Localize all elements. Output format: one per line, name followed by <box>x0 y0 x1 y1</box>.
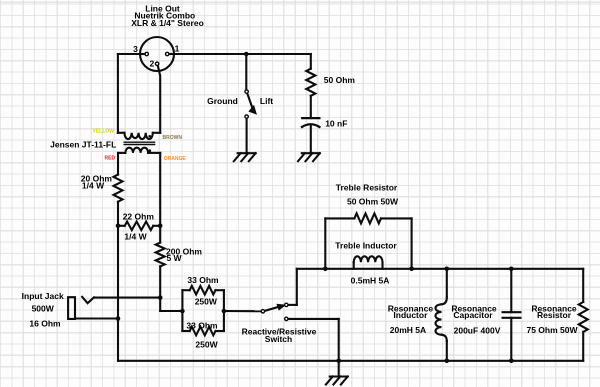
svg-text:Switch: Switch <box>265 334 292 344</box>
svg-text:250W: 250W <box>195 340 218 350</box>
svg-text:Treble Resistor: Treble Resistor <box>336 182 398 192</box>
svg-text:33 Ohm: 33 Ohm <box>187 275 219 285</box>
svg-text:2: 2 <box>150 58 155 68</box>
svg-text:Input Jack: Input Jack <box>22 291 64 301</box>
svg-text:1/4 W: 1/4 W <box>124 231 147 241</box>
svg-text:16 Ohm: 16 Ohm <box>29 319 61 329</box>
svg-text:50 Ohm: 50 Ohm <box>324 75 356 85</box>
svg-text:RED: RED <box>105 156 116 162</box>
svg-text:250W: 250W <box>195 297 218 307</box>
svg-text:22 Ohm: 22 Ohm <box>123 212 155 222</box>
svg-text:XLR & 1/4" Stereo: XLR & 1/4" Stereo <box>131 18 204 28</box>
svg-text:0.5mH 5A: 0.5mH 5A <box>351 275 390 285</box>
svg-text:ORANGE: ORANGE <box>164 156 187 162</box>
svg-text:75 Ohm 50W: 75 Ohm 50W <box>526 325 578 335</box>
svg-text:BROWN: BROWN <box>163 135 183 141</box>
svg-text:1: 1 <box>175 44 180 54</box>
svg-text:10 nF: 10 nF <box>325 119 347 129</box>
svg-text:Ground: Ground <box>207 96 238 106</box>
svg-text:Capacitor: Capacitor <box>453 310 493 320</box>
svg-text:200uF 400V: 200uF 400V <box>454 326 501 336</box>
svg-text:20mH 5A: 20mH 5A <box>390 325 426 335</box>
svg-text:YELLOW: YELLOW <box>93 128 115 134</box>
svg-text:Treble Inductor: Treble Inductor <box>335 240 397 250</box>
svg-text:3: 3 <box>133 44 138 54</box>
svg-text:500W: 500W <box>32 304 55 314</box>
svg-text:Lift: Lift <box>260 96 273 106</box>
svg-text:50 Ohm 50W: 50 Ohm 50W <box>347 196 399 206</box>
svg-text:33 Ohm: 33 Ohm <box>186 321 218 331</box>
svg-text:Jensen JT-11-FL: Jensen JT-11-FL <box>50 140 116 150</box>
svg-text:Resistor: Resistor <box>537 310 572 320</box>
svg-text:1/4 W: 1/4 W <box>82 181 105 191</box>
svg-text:5 W: 5 W <box>166 253 182 263</box>
svg-text:Inductor: Inductor <box>393 310 428 320</box>
